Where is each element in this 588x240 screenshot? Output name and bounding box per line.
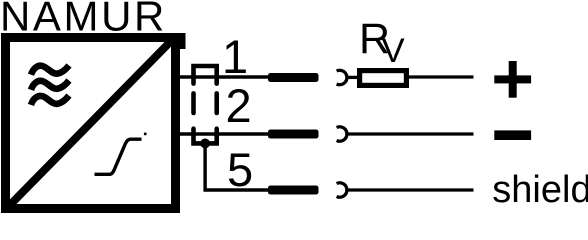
junction dot node [200,139,210,149]
connector plug outline (dashed rectangle) [194,66,217,143]
oscillator wave symbol [31,65,69,105]
socket contact pin 5 [337,183,347,197]
wire socket 1 to resistor [347,76,358,79]
diagonal of sensor box [7,38,174,208]
svg-text:1: 1 [222,30,248,83]
cable core 5 (thick bar) [268,186,319,195]
wire socket 2 to minus terminal [347,132,474,135]
socket contact pin 1 [337,70,347,84]
svg-text:5: 5 [227,143,253,196]
wire pin 2 (box to cable) [178,132,269,135]
svg-text:V: V [382,32,405,70]
terminal plus symbol [494,61,531,98]
sensor box U1 (NAMUR proximity switch) [6,38,176,209]
terminal minus symbol [494,130,531,140]
wire socket 5 to shield terminal [347,188,474,191]
switching characteristic symbol [95,139,142,174]
wire pin 1 (box to cable) [178,75,269,78]
cable core 2 (thick bar) [268,130,319,139]
wire pin 5 (junction down and right to cable) [205,144,268,191]
box corner nub [176,33,186,49]
socket contact pin 2 [337,127,347,141]
cable core 1 (thick bar) [268,73,319,82]
resistor Rv [360,71,407,86]
svg-text:2: 2 [226,79,252,132]
svg-text:shield: shield [492,169,588,211]
switch symbol dot [144,133,147,136]
wire resistor to plus terminal [409,75,474,78]
